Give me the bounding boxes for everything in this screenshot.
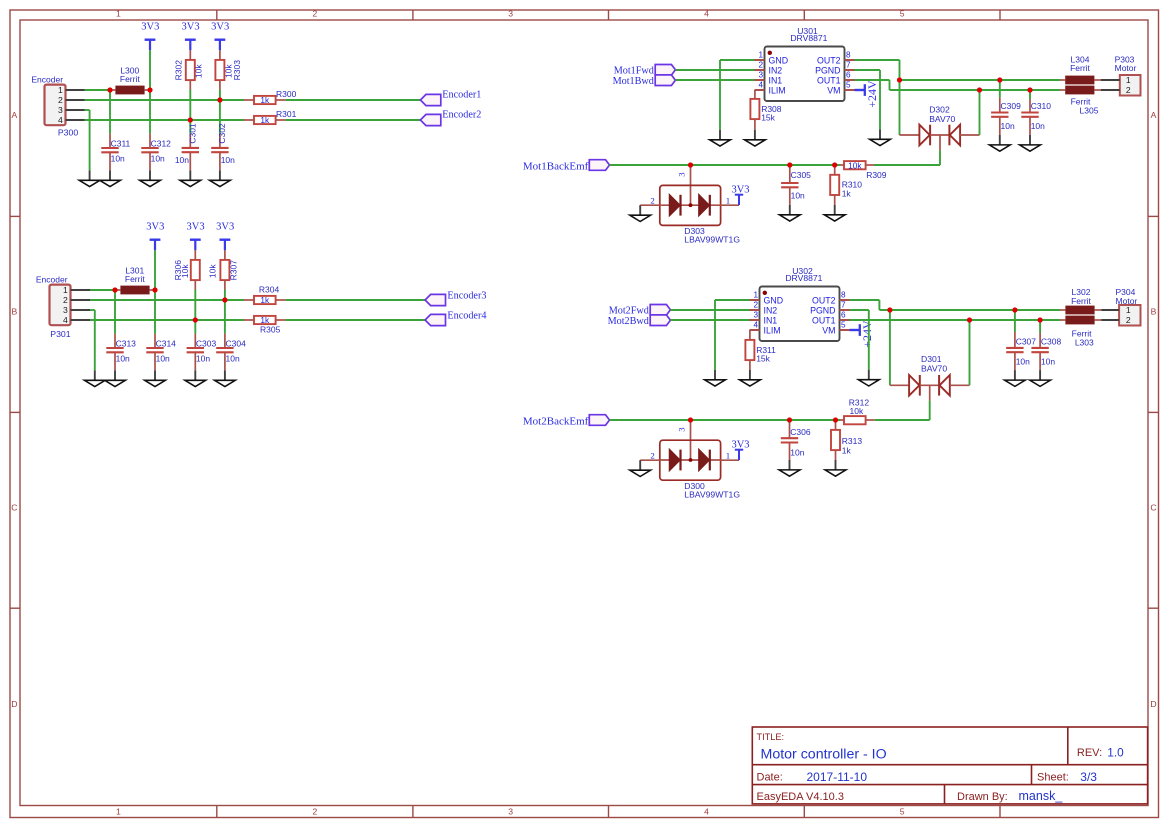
- junction D300 pin3: [688, 417, 693, 422]
- svg-text:3: 3: [58, 105, 63, 115]
- svg-text:2: 2: [753, 301, 758, 310]
- ground C306: [779, 460, 800, 476]
- svg-text:OUT1: OUT1: [817, 75, 841, 85]
- svg-text:EasyEDA V4.10.3: EasyEDA V4.10.3: [757, 791, 844, 803]
- svg-text:R300: R300: [276, 89, 297, 99]
- junction at L300 left: [107, 87, 112, 92]
- svg-text:OUT2: OUT2: [817, 55, 841, 65]
- svg-text:2: 2: [650, 195, 654, 205]
- svg-text:VM: VM: [827, 85, 840, 95]
- svg-text:R305: R305: [260, 324, 281, 334]
- svg-text:1k: 1k: [260, 115, 270, 125]
- wire U302 OUT1 to motor row2: [850, 319, 1061, 321]
- svg-text:3: 3: [508, 9, 513, 19]
- junction at L301 left: [112, 287, 117, 292]
- svg-text:10n: 10n: [1041, 356, 1055, 366]
- junction C310 row2: [1027, 87, 1032, 92]
- svg-text:2: 2: [313, 9, 318, 19]
- svg-text:OUT2: OUT2: [812, 295, 836, 305]
- svg-text:10n: 10n: [156, 354, 170, 364]
- ground U302 GND: [705, 370, 726, 386]
- wire node to C314: [154, 290, 156, 334]
- junction OUT2 row1: [897, 77, 902, 82]
- svg-text:3V3: 3V3: [731, 184, 749, 195]
- svg-text:DRV8871: DRV8871: [790, 33, 827, 43]
- junction C308 row2: [1038, 317, 1043, 322]
- svg-text:3V3: 3V3: [146, 222, 164, 233]
- wire R300 to Encoder1 flag: [286, 99, 421, 101]
- junction D302/row2: [977, 87, 982, 92]
- svg-text:1: 1: [116, 806, 121, 816]
- wire P301.1 to L301: [90, 289, 115, 291]
- svg-text:3V3: 3V3: [182, 22, 200, 33]
- wire U302 GND pin to ground: [715, 300, 750, 370]
- resistor R307 10k: [207, 250, 238, 289]
- svg-text:D301: D301: [921, 354, 942, 364]
- svg-text:C312: C312: [151, 138, 172, 148]
- ground C308: [1030, 370, 1051, 386]
- svg-text:C: C: [11, 503, 17, 513]
- capacitor C313 10n: [106, 334, 136, 371]
- svg-text:PGND: PGND: [810, 305, 835, 315]
- ground C302: [210, 170, 231, 186]
- net flag Encoder4: [425, 311, 486, 326]
- ferrite bead L305: [1060, 86, 1101, 116]
- diode D301 BAV70: [890, 354, 970, 400]
- svg-text:LBAV99WT1G: LBAV99WT1G: [684, 234, 740, 244]
- svg-text:GND: GND: [764, 295, 784, 305]
- svg-text:1k: 1k: [842, 445, 852, 455]
- junction R302/C301 on row4: [188, 117, 193, 122]
- svg-text:Mot2Bwd: Mot2Bwd: [608, 316, 649, 327]
- svg-text:Ferrit: Ferrit: [1071, 296, 1091, 306]
- ground R308: [745, 130, 766, 146]
- wire row2 node to C304: [224, 300, 226, 334]
- svg-text:3V3: 3V3: [187, 222, 205, 233]
- wire 3V3 to L300/C312 node: [149, 50, 151, 90]
- svg-text:Motor: Motor: [1116, 296, 1138, 306]
- svg-text:R303: R303: [232, 60, 242, 81]
- wire U302 OUT2 to motor row1: [850, 300, 1061, 385]
- junction R307/C304 on row2: [222, 297, 227, 302]
- svg-text:1: 1: [758, 51, 763, 60]
- svg-text:+24V: +24V: [865, 80, 879, 108]
- power flag 3V3 (R306): [187, 222, 205, 251]
- svg-text:2: 2: [1126, 85, 1131, 95]
- svg-text:D: D: [11, 699, 17, 709]
- junction D301/row2: [967, 317, 972, 322]
- svg-text:L303: L303: [1075, 337, 1094, 347]
- wire R302 to row4: [189, 90, 191, 121]
- svg-text:10n: 10n: [790, 447, 804, 457]
- svg-text:10n: 10n: [1016, 356, 1030, 366]
- svg-text:Encoder2: Encoder2: [442, 110, 481, 121]
- svg-text:2: 2: [650, 450, 654, 460]
- svg-text:DRV8871: DRV8871: [785, 273, 822, 283]
- svg-text:5: 5: [900, 9, 905, 19]
- net flag Encoder2: [420, 110, 481, 126]
- svg-text:10n: 10n: [175, 155, 189, 165]
- svg-text:Mot1Bwd: Mot1Bwd: [613, 76, 654, 87]
- svg-text:IN1: IN1: [764, 315, 778, 325]
- wire R301 to Encoder2 flag: [286, 119, 421, 121]
- svg-text:C313: C313: [116, 338, 137, 348]
- capacitor C305 10n: [781, 165, 811, 205]
- resistor R313 1k: [831, 420, 862, 460]
- ferrite bead L304: [1060, 54, 1101, 84]
- svg-text:REV:: REV:: [1077, 747, 1102, 759]
- svg-text:LBAV99WT1G: LBAV99WT1G: [684, 489, 740, 499]
- resistor R306 10k: [173, 250, 200, 289]
- power flag +24V (U301 VM): [855, 80, 879, 108]
- svg-text:2: 2: [758, 61, 763, 70]
- junction C306: [787, 417, 792, 422]
- svg-text:C308: C308: [1041, 336, 1062, 346]
- resistor R302 10k: [174, 50, 204, 89]
- svg-text:1: 1: [726, 195, 730, 205]
- junction C305: [787, 162, 792, 167]
- svg-text:2017-11-10: 2017-11-10: [807, 770, 868, 784]
- diode D300 LBAV99WT1G: [640, 420, 740, 499]
- svg-text:4: 4: [753, 321, 758, 330]
- svg-text:Encoder4: Encoder4: [447, 311, 486, 322]
- junction U302 OUT2 row1: [887, 307, 892, 312]
- title block: [752, 727, 1147, 804]
- ferrite bead L302: [1060, 287, 1101, 314]
- svg-text:BAV70: BAV70: [929, 114, 955, 124]
- svg-text:8: 8: [841, 291, 846, 300]
- ground C309: [989, 135, 1010, 151]
- connector P303 Motor: [1101, 54, 1141, 95]
- svg-text:TITLE:: TITLE:: [757, 732, 785, 742]
- junction C309 row1: [997, 77, 1002, 82]
- svg-text:A: A: [12, 110, 18, 120]
- op-amp U301 DRV8871: [755, 26, 855, 101]
- svg-text:10n: 10n: [196, 354, 210, 364]
- capacitor C303 10n: [187, 334, 217, 371]
- svg-text:R301: R301: [276, 109, 297, 119]
- svg-text:mansk_: mansk_: [1019, 789, 1064, 803]
- resistor R310 1k: [830, 165, 862, 205]
- wire P300.3 to ground: [85, 110, 90, 170]
- svg-text:3: 3: [508, 806, 513, 816]
- diode D302 BAV70: [900, 105, 980, 151]
- wire D301 right to row2: [969, 320, 971, 385]
- capacitor C304 10n: [216, 334, 246, 371]
- ground C307: [1005, 370, 1026, 386]
- net flag Mot2Bwd: [608, 315, 671, 327]
- wire R305 to Encoder4 flag: [286, 319, 426, 321]
- ground C311: [100, 170, 121, 186]
- svg-text:4: 4: [758, 81, 763, 90]
- wire R304 to Encoder3 flag: [286, 299, 426, 301]
- resistor R311 15k: [745, 330, 776, 370]
- svg-text:1: 1: [1126, 305, 1131, 315]
- wire PGND to ground: [855, 70, 881, 129]
- ground P300.3: [79, 170, 100, 186]
- wire 3V3 to L301/C314 node: [154, 250, 156, 290]
- svg-text:3V3: 3V3: [216, 222, 234, 233]
- wire OUT2 to motor row1: [855, 60, 1061, 135]
- ground C301: [180, 170, 201, 186]
- power flag 3V3 (C314 branch): [146, 222, 164, 251]
- net flag Mot1BackEmf: [523, 160, 610, 173]
- ferrite bead L303: [1060, 316, 1101, 348]
- ground D303 pin2: [630, 205, 651, 221]
- svg-text:1: 1: [753, 291, 758, 300]
- junction R303/C302 on row2: [217, 97, 222, 102]
- ground U302 PGND: [858, 370, 879, 386]
- resistor R312 10k: [840, 398, 875, 425]
- resistor R301 1k: [244, 109, 297, 125]
- svg-text:2: 2: [1126, 315, 1131, 325]
- svg-text:6: 6: [846, 71, 851, 80]
- power flag +24V (U302 VM): [850, 320, 874, 348]
- svg-text:C302: C302: [217, 123, 227, 144]
- svg-text:C301: C301: [187, 123, 197, 144]
- capacitor C314 10n: [146, 334, 176, 371]
- svg-text:Drawn By:: Drawn By:: [957, 791, 1008, 803]
- svg-text:1k: 1k: [260, 95, 270, 105]
- svg-text:5: 5: [846, 81, 851, 90]
- svg-text:3: 3: [63, 305, 68, 315]
- ground C313: [105, 370, 126, 386]
- ferrite bead L301: [115, 266, 155, 295]
- svg-text:C306: C306: [790, 427, 811, 437]
- svg-text:D302: D302: [929, 105, 950, 115]
- net flag Mot2Fwd: [609, 305, 671, 317]
- svg-text:C307: C307: [1016, 336, 1037, 346]
- ground R313: [825, 460, 846, 476]
- wire P301.4 row: [90, 319, 244, 321]
- capacitor C302 10n: [211, 123, 235, 170]
- wire Mot2Fwd to IN2: [670, 309, 749, 311]
- power flag 3V3 (C312 branch): [141, 22, 159, 51]
- junction R310: [832, 162, 837, 167]
- svg-text:Ferrit: Ferrit: [1070, 63, 1090, 73]
- wire P301.3 to ground: [90, 310, 95, 370]
- svg-text:B: B: [12, 306, 18, 316]
- wire D301 tap to R312: [929, 401, 931, 420]
- junction at L301 right: [152, 287, 157, 292]
- svg-text:Encoder: Encoder: [36, 275, 68, 285]
- svg-text:3/3: 3/3: [1080, 770, 1097, 784]
- wire P300.1 to L300: [85, 89, 111, 91]
- svg-text:10k: 10k: [180, 264, 190, 278]
- svg-text:Mot2BackEmf: Mot2BackEmf: [523, 415, 589, 427]
- junction R313: [833, 417, 838, 422]
- ground P301.3: [84, 370, 105, 386]
- ground R310: [824, 205, 845, 221]
- capacitor C308 10n: [1031, 320, 1061, 370]
- svg-text:10k: 10k: [207, 264, 217, 278]
- svg-text:15k: 15k: [761, 113, 775, 123]
- svg-text:2: 2: [63, 295, 68, 305]
- capacitor C310 10n: [1021, 90, 1051, 135]
- capacitor C301 10n: [175, 123, 199, 170]
- capacitor C312 10n: [141, 134, 171, 171]
- junction at L300 right: [147, 87, 152, 92]
- svg-text:3V3: 3V3: [141, 22, 159, 33]
- wire P300.4 row: [85, 119, 245, 121]
- wire D302 tap to R309: [939, 150, 941, 165]
- svg-text:3V3: 3V3: [211, 22, 229, 33]
- svg-text:10n: 10n: [116, 354, 130, 364]
- svg-text:4: 4: [63, 315, 68, 325]
- svg-text:B: B: [1151, 306, 1157, 316]
- wire D302 right to row2: [979, 90, 981, 135]
- svg-text:ILIM: ILIM: [764, 325, 781, 335]
- wire R312 to D301 tap: [875, 419, 930, 421]
- junction D303 pin3: [688, 162, 693, 167]
- svg-text:Encoder: Encoder: [31, 75, 63, 85]
- ferrite bead L300: [110, 66, 150, 95]
- svg-text:Encoder3: Encoder3: [447, 291, 486, 302]
- wire Mot2BackEmf row: [610, 419, 841, 421]
- wire Mot1BackEmf row: [610, 164, 841, 166]
- junction C307 row1: [1012, 307, 1017, 312]
- svg-text:C305: C305: [791, 170, 812, 180]
- svg-text:1k: 1k: [842, 189, 852, 199]
- wire Mot1Bwd to IN1: [675, 79, 754, 81]
- svg-text:L305: L305: [1080, 106, 1099, 116]
- svg-text:1: 1: [1126, 75, 1131, 85]
- resistor R304 1k: [244, 284, 286, 305]
- svg-text:3V3: 3V3: [731, 439, 749, 450]
- wire P300.2 row: [85, 99, 245, 101]
- svg-text:C: C: [1150, 503, 1156, 513]
- svg-text:R307: R307: [229, 260, 239, 281]
- svg-text:10n: 10n: [791, 190, 805, 200]
- svg-text:C314: C314: [156, 338, 177, 348]
- svg-text:C310: C310: [1031, 101, 1052, 111]
- svg-text:Encoder1: Encoder1: [442, 90, 481, 101]
- wire L300 node to C311: [109, 90, 111, 134]
- svg-text:R309: R309: [866, 170, 887, 180]
- svg-text:PGND: PGND: [815, 65, 840, 75]
- svg-text:2: 2: [313, 806, 318, 816]
- connector P300: [31, 75, 84, 138]
- svg-text:10n: 10n: [226, 354, 240, 364]
- svg-text:7: 7: [841, 301, 846, 310]
- wire R306 to row4: [194, 290, 196, 321]
- svg-text:4: 4: [704, 806, 709, 816]
- svg-text:ILIM: ILIM: [769, 85, 786, 95]
- svg-text:6: 6: [841, 311, 846, 320]
- svg-text:10k: 10k: [848, 160, 862, 170]
- power flag 3V3 (R303): [211, 22, 229, 51]
- wire row4 node to C301: [189, 120, 191, 134]
- power flag 3V3 (R302): [182, 22, 200, 51]
- svg-text:10n: 10n: [221, 155, 235, 165]
- svg-text:Ferrit: Ferrit: [125, 274, 145, 284]
- svg-text:1: 1: [726, 450, 730, 460]
- svg-text:BAV70: BAV70: [921, 364, 947, 374]
- capacitor C306 10n: [781, 420, 811, 460]
- svg-text:3: 3: [753, 311, 758, 320]
- junction R306/C303 on row4: [193, 317, 198, 322]
- svg-text:Motor: Motor: [1115, 63, 1137, 73]
- net flag Mot1Bwd: [613, 75, 676, 87]
- ground C312: [140, 170, 161, 186]
- svg-text:Sheet:: Sheet:: [1037, 772, 1069, 784]
- svg-text:1: 1: [63, 285, 68, 295]
- capacitor C307 10n: [1006, 310, 1036, 370]
- net flag Encoder3: [425, 291, 486, 306]
- svg-text:10n: 10n: [1001, 121, 1015, 131]
- ground C305: [779, 205, 800, 221]
- ground U301 GND: [710, 130, 731, 146]
- power flag 3V3 (R307): [216, 222, 234, 251]
- svg-text:Mot1BackEmf: Mot1BackEmf: [523, 160, 589, 172]
- svg-text:P300: P300: [58, 128, 78, 138]
- resistor R303 10k: [215, 50, 242, 89]
- svg-text:2: 2: [58, 95, 63, 105]
- net flag Encoder1: [420, 90, 481, 106]
- svg-text:3: 3: [677, 172, 687, 177]
- svg-text:GND: GND: [769, 55, 789, 65]
- op-amp U302 DRV8871: [750, 266, 850, 341]
- wire row2 node to C302: [219, 100, 221, 134]
- capacitor C311 10n: [101, 134, 130, 171]
- resistor R309 10k: [840, 160, 887, 180]
- svg-text:R304: R304: [259, 284, 280, 294]
- ground C303: [185, 370, 206, 386]
- svg-text:Motor controller - IO: Motor controller - IO: [761, 747, 887, 763]
- svg-text:IN1: IN1: [769, 75, 783, 85]
- svg-text:10k: 10k: [194, 64, 204, 78]
- svg-text:1: 1: [58, 85, 63, 95]
- svg-text:C304: C304: [226, 338, 247, 348]
- svg-text:R313: R313: [842, 436, 863, 446]
- svg-text:10k: 10k: [850, 406, 864, 416]
- ground C310: [1020, 135, 1041, 151]
- svg-text:1: 1: [116, 9, 121, 19]
- wire Mot1Fwd to IN2: [675, 69, 754, 71]
- svg-text:1k: 1k: [260, 295, 270, 305]
- svg-text:4: 4: [704, 9, 709, 19]
- svg-text:4: 4: [58, 115, 63, 125]
- svg-text:10n: 10n: [151, 154, 165, 164]
- svg-text:Date:: Date:: [757, 772, 783, 784]
- wire Mot2Bwd to IN1: [670, 319, 749, 321]
- svg-text:7: 7: [846, 61, 851, 70]
- svg-text:+24V: +24V: [860, 320, 874, 348]
- svg-text:IN2: IN2: [769, 65, 783, 75]
- svg-text:15k: 15k: [756, 354, 770, 364]
- wire R307 to row2: [224, 290, 226, 301]
- svg-text:8: 8: [846, 51, 851, 60]
- wire L301 node to C313: [114, 290, 116, 334]
- resistor R305 1k: [244, 315, 286, 334]
- ground R311: [740, 370, 761, 386]
- diode D303 LBAV99WT1G: [640, 165, 740, 244]
- svg-text:D: D: [1150, 699, 1156, 709]
- ground U301 PGND: [870, 129, 891, 145]
- svg-text:IN2: IN2: [764, 305, 778, 315]
- svg-text:Mot2Fwd: Mot2Fwd: [609, 306, 649, 317]
- power flag 3V3 (D303): [731, 184, 749, 205]
- ground C304: [215, 370, 236, 386]
- wire row4 node to C303: [194, 320, 196, 334]
- power flag 3V3 (D300): [731, 439, 749, 460]
- wire R303 to row2: [219, 90, 221, 101]
- svg-text:5: 5: [900, 806, 905, 816]
- svg-text:5: 5: [841, 321, 846, 330]
- capacitor C309 10n: [991, 80, 1021, 135]
- svg-text:OUT1: OUT1: [812, 315, 836, 325]
- svg-text:A: A: [1151, 110, 1157, 120]
